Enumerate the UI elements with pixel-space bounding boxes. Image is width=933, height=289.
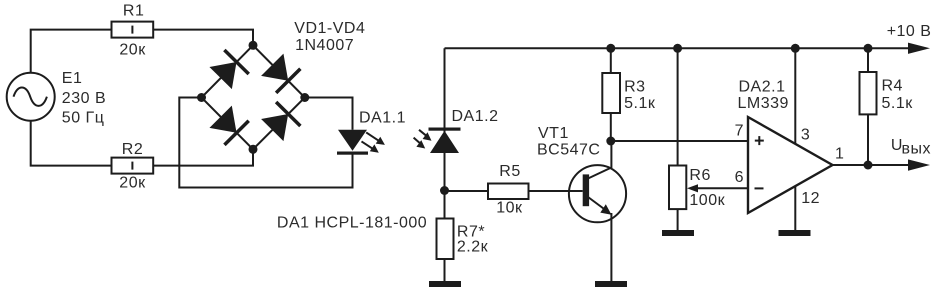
svg-text:12: 12 (801, 190, 820, 207)
wire DA1.2 vertical (444, 48, 446, 218)
node rail/R4 (864, 44, 873, 53)
wire R6 to ground (677, 209, 679, 230)
wire comparator output (833, 164, 910, 166)
AC source E1 (7, 73, 55, 121)
transistor VT1 (569, 165, 626, 222)
svg-text:3: 3 (801, 127, 810, 144)
photodiode DA1.2 (429, 128, 461, 154)
node output/R4 (864, 161, 873, 170)
svg-text:50 Гц: 50 Гц (62, 109, 105, 126)
optocoupler LED DA1.1 (337, 130, 368, 155)
node rail/R3 (606, 44, 615, 53)
resistor R2 (112, 158, 154, 174)
node DA1.2/R5/R7 junction (440, 186, 449, 195)
wire rail to R3 (610, 48, 612, 73)
node bridge left (197, 93, 206, 102)
node bridge bottom (249, 145, 258, 154)
label VT1 BC547C (537, 125, 600, 159)
svg-text:+10 В: +10 В (887, 23, 932, 40)
wire R1 to bridge top (153, 30, 253, 46)
arrow +10V rail end (908, 43, 930, 54)
wire pin 12 to ground (794, 186, 796, 231)
svg-text:R1: R1 (123, 3, 144, 20)
potentiometer R6 (669, 166, 748, 210)
svg-text:R5: R5 (499, 163, 520, 180)
light arrow DA1.2 b (414, 138, 426, 149)
diode VD1 (208, 49, 249, 90)
ground R6 (662, 230, 694, 236)
svg-text:вых: вых (902, 141, 932, 158)
wire R5 to VT1 base (529, 190, 583, 192)
svg-text:DA1.1: DA1.1 (359, 109, 406, 126)
wire R7 to ground (444, 259, 446, 281)
resistor R4 (860, 72, 877, 114)
svg-text:20к: 20к (119, 174, 146, 191)
wire bridge left node return (179, 98, 352, 188)
diode VD4 (260, 101, 301, 142)
wire +10V rail (445, 47, 910, 49)
ground VT1 emitter (595, 281, 627, 287)
svg-text:VT1: VT1 (538, 125, 569, 142)
wire collector node to comparator plus input (611, 140, 748, 142)
wire rail to R4 (867, 48, 869, 72)
wire R2 to bridge bottom node (153, 149, 253, 165)
wire rail to pin 3 (794, 48, 796, 144)
svg-text:5.1к: 5.1к (882, 95, 914, 112)
svg-text:100к: 100к (689, 192, 725, 209)
label E1 230 В 50 Гц (62, 70, 106, 126)
svg-text:6: 6 (735, 169, 744, 186)
svg-text:230 В: 230 В (62, 90, 106, 107)
svg-text:DA1 HCPL-181-000: DA1 HCPL-181-000 (277, 214, 427, 231)
node rail/R6 (673, 44, 682, 53)
svg-text:7: 7 (735, 123, 744, 140)
wire collector up to node (610, 141, 612, 168)
light arrow DA1.1 a (366, 132, 385, 145)
svg-text:DA2.1: DA2.1 (739, 79, 786, 96)
wire emitter down to ground (610, 213, 612, 281)
arrow output end (908, 159, 930, 170)
svg-text:10к: 10к (496, 200, 523, 217)
svg-text:2.2к: 2.2к (457, 239, 489, 256)
wire E1 bottom to R2 (31, 121, 112, 166)
svg-text:R4: R4 (882, 78, 903, 95)
node rail/pin3 (791, 44, 800, 53)
wire E1 top to R1 (31, 30, 112, 73)
svg-text:R6: R6 (689, 167, 710, 184)
node bridge top (249, 41, 258, 50)
node bridge right (300, 93, 309, 102)
svg-text:20к: 20к (119, 42, 146, 59)
wire R3 to collector node (610, 113, 612, 141)
label VD1-VD4 1N4007 (294, 20, 365, 54)
resistor R3 (602, 73, 620, 113)
label Uвых (891, 137, 931, 157)
svg-text:1: 1 (835, 145, 844, 162)
wire bridge right node to LED (305, 98, 353, 130)
svg-text:1N4007: 1N4007 (295, 37, 354, 54)
wire bridge diamond (202, 45, 305, 149)
diode VD3 (208, 105, 249, 146)
resistor R1 (112, 22, 154, 38)
svg-text:R2: R2 (122, 141, 143, 158)
svg-text:R3: R3 (624, 78, 645, 95)
label DA2.1 LM339 (738, 79, 789, 112)
node collector (606, 137, 615, 146)
svg-text:5.1к: 5.1к (624, 95, 656, 112)
resistor R5 (488, 184, 529, 200)
svg-text:DA1.2: DA1.2 (452, 108, 499, 125)
light arrow DA1.1 b (362, 141, 379, 152)
ground DA2.1 pin 12 (779, 230, 811, 236)
svg-text:VD1-VD4: VD1-VD4 (294, 20, 365, 37)
light arrow DA1.2 a (419, 130, 432, 141)
wire rail to R6 (677, 48, 679, 165)
ground R7 (429, 281, 461, 287)
svg-text:LM339: LM339 (738, 95, 789, 112)
op-amp comparator DA2.1 (748, 117, 833, 213)
resistor R7* (437, 219, 454, 260)
wire R4 to output (867, 114, 869, 165)
svg-text:E1: E1 (62, 70, 83, 87)
svg-text:BC547C: BC547C (537, 142, 600, 159)
diode VD2 (260, 53, 301, 94)
wire junction to R5 (445, 190, 489, 192)
